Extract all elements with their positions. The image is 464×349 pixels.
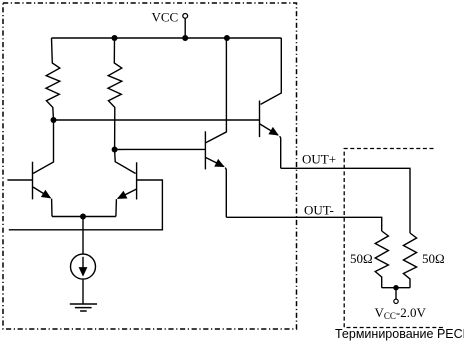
- svg-text:50Ω: 50Ω: [422, 251, 445, 266]
- wire VCC terminal to top rail: [184, 18, 186, 38]
- wire R1 bottom to Q4 base (node OUT+ drive): [54, 119, 260, 121]
- wire top VCC rail: [52, 37, 282, 39]
- svg-text:50Ω: 50Ω: [350, 251, 373, 266]
- current source I1 (circle with down arrow): [71, 254, 96, 279]
- IC internal circuit boundary (dash-dot box): [3, 3, 297, 329]
- wire OUT+ net: [281, 168, 410, 233]
- node VCC rail / R2 junction: [112, 35, 118, 41]
- node VCC rail / terminal junction: [182, 35, 188, 41]
- node R2 / Q2 collector / Q3 base junction: [112, 147, 118, 153]
- wire R2 bottom to Q3 base: [115, 148, 206, 150]
- wire OUT- net: [226, 217, 381, 231]
- svg-text:OUT+: OUT+: [302, 152, 336, 167]
- wire junction to VCC-2.0V terminal: [395, 288, 397, 299]
- wire Q1/Q2 emitters join: [52, 216, 116, 218]
- ground: [70, 304, 97, 311]
- resistor RT1 50 Ohm (OUT- termination): [375, 231, 388, 288]
- wire emitter node to current source: [82, 217, 84, 254]
- node termination common junction: [393, 285, 398, 290]
- resistor R2 (load, right): [108, 38, 122, 150]
- svg-text:OUT-: OUT-: [304, 202, 334, 217]
- VCC-2.0V terminal (open circle): [394, 299, 398, 303]
- node emitter junction to current source: [80, 214, 86, 220]
- transistor Q4 (emitter follower OUT+): [260, 38, 282, 168]
- node R1 / Q1 collector / Q4 base junction: [51, 117, 57, 123]
- svg-text:VCC-2.0V: VCC-2.0V: [375, 305, 427, 321]
- VCC terminal (open circle): [183, 14, 188, 19]
- transistor Q2 (diff pair right, mirrored): [9, 150, 163, 230]
- wire current source to ground: [82, 280, 84, 304]
- transistor Q3 (emitter follower OUT-): [205, 38, 226, 217]
- resistor R1 (load, left): [46, 38, 60, 120]
- resistor RT2 50 Ohm (OUT+ termination): [403, 233, 416, 288]
- transistor Q1 (diff pair left): [7, 120, 53, 217]
- wire RT1/RT2 common bottom: [382, 287, 410, 289]
- node VCC rail / Q3 collector junction: [224, 35, 230, 41]
- svg-text:VCC: VCC: [152, 10, 179, 25]
- termination network boundary (dashed box, open right side): [344, 149, 444, 328]
- svg-text:Терминирование PECL: Терминирование PECL: [335, 327, 464, 341]
